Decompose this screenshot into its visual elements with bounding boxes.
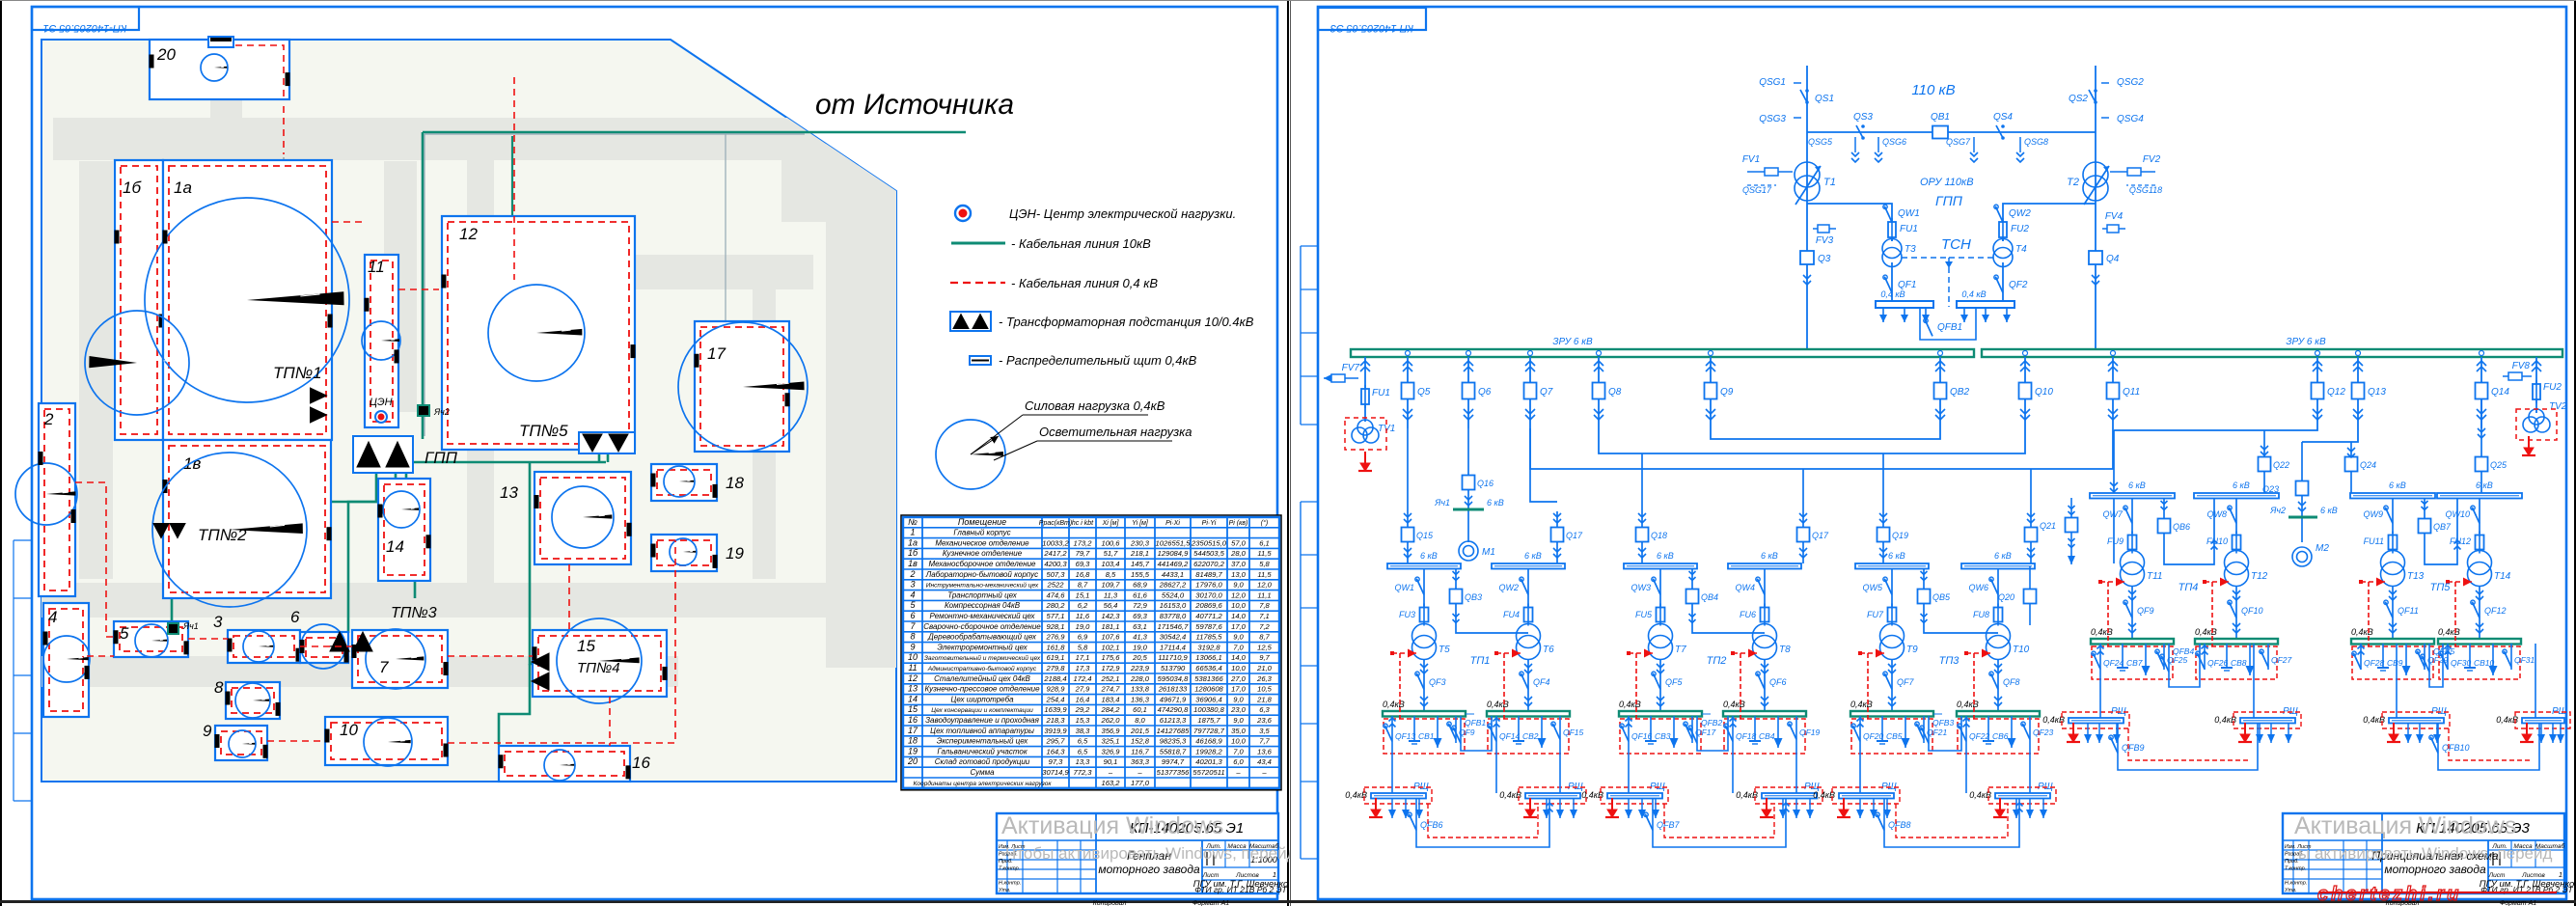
- svg-text:Q6: Q6: [1478, 387, 1492, 398]
- svg-text:QW2: QW2: [1498, 583, 1519, 592]
- svg-text:Утв.: Утв.: [2284, 888, 2297, 893]
- svg-text:QF13: QF13: [1395, 731, 1416, 741]
- svg-text:QB3: QB3: [1465, 592, 1482, 602]
- svg-text:0,4кВ: 0,4кВ: [1487, 700, 1509, 709]
- svg-text:Q10: Q10: [2035, 387, 2053, 398]
- svg-text:FV1: FV1: [1742, 154, 1760, 165]
- svg-text:ОРУ 110кВ: ОРУ 110кВ: [1920, 177, 1974, 188]
- svg-text:Q17: Q17: [1566, 531, 1583, 540]
- svg-text:0,4кВ: 0,4кВ: [2351, 627, 2373, 637]
- svg-text:Q9: Q9: [1720, 387, 1734, 398]
- svg-text:QW5: QW5: [1862, 583, 1882, 592]
- svg-text:Q25: Q25: [2490, 460, 2507, 470]
- svg-text:QF24: QF24: [2103, 658, 2124, 668]
- svg-text:QFB8: QFB8: [1888, 820, 1911, 830]
- svg-text:QF25: QF25: [2167, 655, 2188, 665]
- svg-text:QW1: QW1: [1898, 208, 1920, 219]
- svg-text:QF14: QF14: [1499, 731, 1521, 741]
- svg-text:6 кВ: 6 кВ: [1420, 551, 1438, 561]
- svg-text:Т14: Т14: [2494, 571, 2511, 582]
- svg-text:QSG3: QSG3: [1759, 114, 1786, 124]
- svg-text:QFB10: QFB10: [2442, 743, 2470, 753]
- svg-text:QF18: QF18: [1736, 731, 1757, 741]
- svg-text:6 кВ: 6 кВ: [2320, 506, 2338, 515]
- svg-text:СВ2: СВ2: [1522, 731, 1539, 741]
- svg-text:Т13: Т13: [2407, 571, 2425, 582]
- svg-text:QF12: QF12: [2484, 606, 2507, 616]
- svg-text:Т5: Т5: [1439, 645, 1450, 655]
- svg-text:FU10: FU10: [2206, 536, 2228, 546]
- svg-text:FU2: FU2: [2543, 382, 2562, 393]
- svg-text:QF20: QF20: [1863, 731, 1884, 741]
- svg-text:Q22: Q22: [2273, 460, 2289, 470]
- svg-text:QSG7: QSG7: [1946, 137, 1971, 147]
- svg-text:QF11: QF11: [2398, 606, 2419, 616]
- svg-text:Т8: Т8: [1779, 645, 1791, 655]
- svg-text:QFB5: QFB5: [2433, 646, 2454, 656]
- svg-text:СВ5: СВ5: [1886, 731, 1903, 741]
- svg-text:QW4: QW4: [1735, 583, 1755, 592]
- svg-text:Q16: Q16: [1477, 479, 1494, 488]
- svg-text:QF9: QF9: [2137, 606, 2154, 616]
- svg-text:Активация Windows: Активация Windows: [2294, 812, 2516, 839]
- svg-text:QSG2: QSG2: [2117, 77, 2144, 88]
- svg-text:Т2: Т2: [2067, 177, 2079, 188]
- svg-text:Яч1: Яч1: [1434, 498, 1450, 508]
- svg-text:QF26: QF26: [2207, 658, 2229, 668]
- svg-text:ТП5: ТП5: [2430, 582, 2452, 593]
- svg-text:FV3: FV3: [1816, 235, 1834, 246]
- svg-text:QS1: QS1: [1815, 94, 1834, 104]
- svg-text:ТV2: ТV2: [2549, 401, 2567, 412]
- svg-text:QF7: QF7: [1897, 677, 1914, 687]
- svg-text:QF10: QF10: [2241, 606, 2263, 616]
- svg-text:Т1: Т1: [1823, 177, 1836, 188]
- svg-text:QFB9: QFB9: [2122, 743, 2145, 753]
- svg-text:6 кВ: 6 кВ: [1888, 551, 1905, 561]
- svg-text:QW7: QW7: [2102, 509, 2123, 519]
- svg-text:Q11: Q11: [2123, 387, 2140, 398]
- svg-text:6 кВ: 6 кВ: [1994, 551, 2012, 561]
- svg-text:Q21: Q21: [2040, 521, 2056, 531]
- svg-text:QB6: QB6: [2173, 522, 2190, 532]
- svg-text:1: 1: [2559, 870, 2562, 879]
- svg-text:Q12: Q12: [2327, 387, 2345, 398]
- svg-text:QW3: QW3: [1631, 583, 1651, 592]
- svg-text:FV7: FV7: [1342, 363, 1360, 373]
- svg-text:QF17: QF17: [1695, 728, 1716, 737]
- svg-text:0,4кВ: 0,4кВ: [1957, 700, 1979, 709]
- svg-text:Т10: Т10: [2013, 645, 2030, 655]
- svg-text:QB7: QB7: [2433, 522, 2452, 532]
- svg-text:FV8: FV8: [2512, 361, 2531, 371]
- svg-text:FU12: FU12: [2450, 536, 2471, 546]
- svg-text:QF2: QF2: [2009, 280, 2028, 290]
- svg-text:СВ3: СВ3: [1655, 731, 1671, 741]
- svg-text:ЗРУ 6 кВ: ЗРУ 6 кВ: [2286, 337, 2326, 347]
- svg-text:QFB2: QFB2: [1701, 718, 1722, 728]
- svg-text:0,4 кВ: 0,4 кВ: [1880, 289, 1905, 299]
- svg-text:6 кВ: 6 кВ: [2476, 480, 2493, 490]
- svg-text:0,4кВ: 0,4кВ: [1723, 700, 1745, 709]
- svg-text:0,4 кВ: 0,4 кВ: [1961, 289, 1986, 299]
- svg-text:моторного завода: моторного завода: [2384, 863, 2486, 876]
- svg-text:QF15: QF15: [1563, 728, 1584, 737]
- svg-text:М1: М1: [1482, 547, 1495, 558]
- svg-text:QF5: QF5: [1665, 677, 1683, 687]
- svg-text:СВ7: СВ7: [2126, 658, 2143, 668]
- svg-text:ТП3: ТП3: [1939, 655, 1960, 667]
- svg-text:ТП2: ТП2: [1707, 655, 1727, 667]
- svg-text:Q5: Q5: [1417, 387, 1431, 398]
- svg-text:Копировал: Копировал: [2386, 900, 2420, 906]
- svg-text:ТП4: ТП4: [2179, 582, 2199, 593]
- svg-text:0,4кВ: 0,4кВ: [2195, 627, 2217, 637]
- svg-text:СВ9: СВ9: [2387, 658, 2403, 668]
- svg-text:QF6: QF6: [1769, 677, 1787, 687]
- svg-text:Q13: Q13: [2368, 387, 2386, 398]
- svg-text:FU2: FU2: [2011, 224, 2029, 234]
- svg-text:0,4кВ: 0,4кВ: [2091, 627, 2113, 637]
- svg-text:QF16: QF16: [1631, 731, 1653, 741]
- svg-text:Т9: Т9: [1906, 645, 1918, 655]
- svg-text:Q4: Q4: [2106, 254, 2120, 264]
- svg-text:QW1: QW1: [1394, 583, 1414, 592]
- svg-text:6 кВ: 6 кВ: [1657, 551, 1674, 561]
- svg-text:QF19: QF19: [1799, 728, 1821, 737]
- svg-text:Q18: Q18: [1651, 531, 1667, 540]
- svg-text:QS2: QS2: [2069, 94, 2088, 104]
- svg-text:QSG17: QSG17: [1742, 185, 1772, 195]
- svg-text:QSG5: QSG5: [1808, 137, 1833, 147]
- svg-text:0,4кВ: 0,4кВ: [2438, 627, 2460, 637]
- svg-text:Н.контр.: Н.контр.: [2285, 881, 2307, 887]
- svg-text:Q20: Q20: [1998, 592, 2014, 602]
- svg-text:Т6: Т6: [1543, 645, 1554, 655]
- svg-text:QB2: QB2: [1950, 387, 1969, 398]
- svg-text:Q7: Q7: [1540, 387, 1553, 398]
- svg-text:ЗРУ 6 кВ: ЗРУ 6 кВ: [1552, 337, 1593, 347]
- svg-text:Т3: Т3: [1905, 244, 1916, 255]
- svg-text:6 кВ: 6 кВ: [2233, 480, 2250, 490]
- svg-text:QSG1: QSG1: [1759, 77, 1786, 88]
- svg-text:QF3: QF3: [1429, 677, 1446, 687]
- svg-text:0,4кВ: 0,4кВ: [1619, 700, 1641, 709]
- svg-text:QW9: QW9: [2363, 509, 2383, 519]
- svg-text:QF28: QF28: [2364, 658, 2385, 668]
- svg-text:QF30: QF30: [2451, 658, 2472, 668]
- svg-text:QF4: QF4: [1533, 677, 1550, 687]
- svg-text:FU5: FU5: [1635, 610, 1653, 619]
- svg-text:0,4кВ: 0,4кВ: [1850, 700, 1873, 709]
- svg-text:СВ4: СВ4: [1759, 731, 1775, 741]
- svg-text:Лист: Лист: [2488, 872, 2506, 879]
- svg-text:ГПП: ГПП: [1935, 193, 1963, 208]
- svg-text:6 кВ: 6 кВ: [1524, 551, 1542, 561]
- svg-text:QFB1: QFB1: [1465, 718, 1486, 728]
- svg-text:FU6: FU6: [1740, 610, 1756, 619]
- svg-text:QFB3: QFB3: [1932, 718, 1954, 728]
- svg-text:Q17: Q17: [1812, 531, 1829, 540]
- svg-text:Т.контр.: Т.контр.: [2285, 866, 2306, 872]
- svg-text:QSG118: QSG118: [2129, 185, 2162, 195]
- svg-text:6 кВ: 6 кВ: [2128, 480, 2146, 490]
- svg-text:Т11: Т11: [2147, 571, 2163, 582]
- svg-text:QF21: QF21: [1927, 728, 1948, 737]
- svg-text:0,4кВ: 0,4кВ: [1383, 700, 1405, 709]
- svg-text:FU4: FU4: [1503, 610, 1520, 619]
- svg-text:Яч2: Яч2: [2269, 506, 2286, 515]
- svg-text:6 кВ: 6 кВ: [1487, 498, 1504, 508]
- svg-text:QS4: QS4: [1993, 112, 2013, 123]
- svg-text:QSG6: QSG6: [1882, 137, 1906, 147]
- svg-text:Т12: Т12: [2251, 571, 2268, 582]
- svg-text:FU8: FU8: [1973, 610, 1989, 619]
- svg-text:110 кВ: 110 кВ: [1911, 82, 1955, 98]
- svg-text:СВ8: СВ8: [2231, 658, 2247, 668]
- svg-text:Q19: Q19: [1892, 531, 1908, 540]
- svg-text:КП 140205.65 Э3: КП 140205.65 Э3: [1329, 22, 1413, 34]
- svg-text:СВ6: СВ6: [1992, 731, 2009, 741]
- svg-text:ы активировать Windows, перейд: ы активировать Windows, перейд: [2298, 844, 2553, 863]
- svg-text:QF22: QF22: [1969, 731, 1990, 741]
- svg-text:Т7: Т7: [1675, 645, 1686, 655]
- svg-text:СВ1: СВ1: [1418, 731, 1435, 741]
- svg-text:6 кВ: 6 кВ: [1761, 551, 1778, 561]
- svg-text:Проб.: Проб.: [2285, 859, 2299, 865]
- svg-text:FV2: FV2: [2143, 154, 2161, 165]
- svg-text:QB4: QB4: [1701, 592, 1718, 602]
- svg-text:QB5: QB5: [1932, 592, 1951, 602]
- svg-text:Q15: Q15: [1416, 531, 1434, 540]
- svg-text:QW2: QW2: [2009, 208, 2031, 219]
- svg-text:QF8: QF8: [2003, 677, 2020, 687]
- svg-text:FU3: FU3: [1399, 610, 1415, 619]
- svg-text:Q8: Q8: [1608, 387, 1622, 398]
- svg-text:Q24: Q24: [2360, 460, 2376, 470]
- svg-text:QSG4: QSG4: [2117, 114, 2144, 124]
- svg-text:QSG8: QSG8: [2024, 137, 2048, 147]
- svg-text:ТП1: ТП1: [1470, 655, 1491, 667]
- svg-text:Q14: Q14: [2491, 387, 2509, 398]
- svg-text:FU1: FU1: [1900, 224, 1918, 234]
- svg-text:FU9: FU9: [2107, 536, 2124, 546]
- svg-text:QFB4: QFB4: [2173, 646, 2194, 656]
- svg-text:Q3: Q3: [1818, 254, 1831, 264]
- svg-text:QFB6: QFB6: [1420, 820, 1443, 830]
- svg-text:QF31: QF31: [2514, 655, 2535, 665]
- svg-text:FV4: FV4: [2105, 211, 2124, 222]
- svg-text:QFB7: QFB7: [1657, 820, 1681, 830]
- svg-text:QB1: QB1: [1931, 112, 1950, 123]
- svg-text:FU1: FU1: [1372, 388, 1390, 398]
- svg-text:ТСН: ТСН: [1941, 236, 1971, 253]
- svg-text:QF27: QF27: [2271, 655, 2292, 665]
- svg-text:QFB1: QFB1: [1937, 322, 1962, 333]
- svg-text:6 кВ: 6 кВ: [2389, 480, 2406, 490]
- svg-text:QW6: QW6: [1968, 583, 1988, 592]
- svg-text:FU11: FU11: [2364, 536, 2384, 546]
- svg-text:QF23: QF23: [2033, 728, 2054, 737]
- svg-text:QW8: QW8: [2206, 509, 2227, 519]
- svg-text:Т4: Т4: [2015, 244, 2027, 255]
- svg-text:М2: М2: [2316, 543, 2329, 554]
- svg-text:Листов: Листов: [2521, 872, 2545, 879]
- svg-text:QS3: QS3: [1853, 112, 1873, 123]
- svg-text:FU7: FU7: [1867, 610, 1884, 619]
- svg-text:Формат А1: Формат А1: [2500, 900, 2536, 906]
